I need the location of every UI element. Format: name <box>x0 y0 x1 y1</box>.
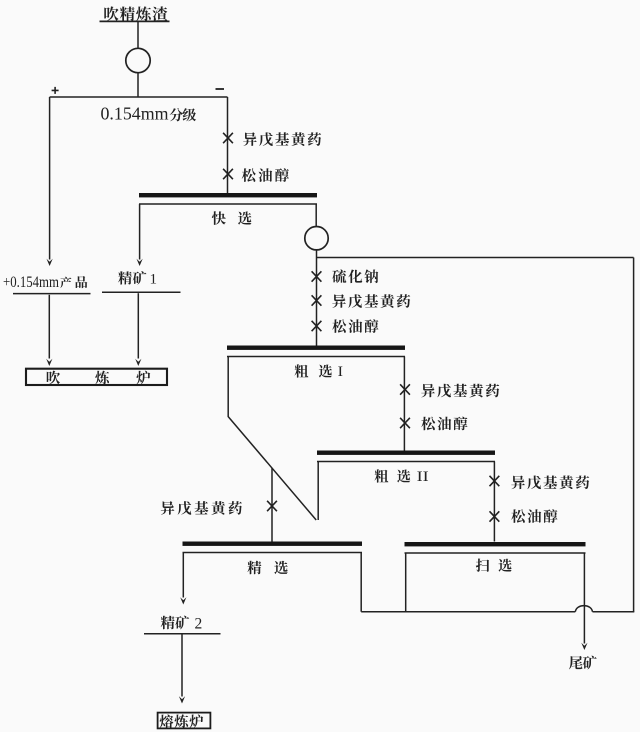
svg-text:2: 2 <box>195 616 203 633</box>
svg-text:II: II <box>417 469 429 485</box>
svg-text:I: I <box>338 364 344 380</box>
svg-text:+0.154mm: +0.154mm <box>3 274 59 291</box>
svg-text:1: 1 <box>150 271 158 287</box>
svg-text:0.154mm: 0.154mm <box>101 104 169 124</box>
